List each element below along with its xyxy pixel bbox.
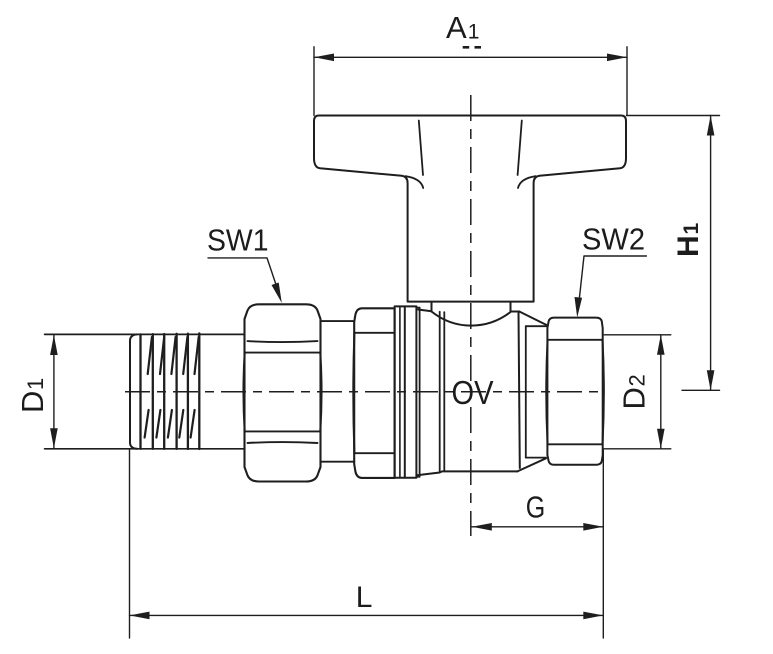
- dimension H1 line: [710, 116, 712, 391]
- svg-text:SW2: SW2: [582, 221, 645, 256]
- label H1 rotated bold: [672, 223, 705, 258]
- label D1 rotated: [15, 378, 50, 413]
- dimension L extension lines: [130, 450, 604, 638]
- dimension A1 line: [314, 56, 627, 58]
- dimension D1 line: [53, 335, 55, 448]
- dimension D1 arrows: [50, 335, 58, 355]
- label D2 rotated: [617, 374, 652, 409]
- valve body right edge: [519, 312, 520, 469]
- svg-text:1: 1: [680, 223, 703, 235]
- dimension D2 line: [660, 335, 662, 449]
- dimension G line: [472, 526, 604, 528]
- svg-text:1: 1: [468, 20, 480, 43]
- thread end edge: [130, 334, 137, 448]
- svg-text:D: D: [15, 391, 50, 413]
- hex nut SW2 side bulges: [546, 340, 604, 445]
- dimension G extension right: [602, 450, 604, 557]
- handle outline: [314, 116, 626, 302]
- pipe bottom line: [45, 448, 244, 450]
- dimension A1 arrows: [314, 54, 334, 62]
- thread flank lines upper: [148, 337, 199, 374]
- svg-text:2: 2: [625, 374, 650, 386]
- handle fillet right: [518, 176, 536, 188]
- hex nut SW1 side bulges: [243, 353, 321, 432]
- valve body saddle arc: [432, 312, 511, 326]
- thread flank lines lower: [145, 410, 195, 438]
- dimension H1 extension bottom: [682, 389, 720, 391]
- svg-text:A: A: [446, 10, 467, 45]
- valve body chamfer bottom: [517, 458, 546, 471]
- union nut facet lines: [354, 333, 394, 453]
- valve body left edge lines: [439, 312, 441, 472]
- svg-text:G: G: [526, 489, 546, 524]
- svg-text:OV: OV: [452, 374, 494, 411]
- handle inner edge left: [419, 121, 423, 176]
- hex nut SW1 facet lines: [245, 341, 321, 443]
- dimension L line: [130, 614, 604, 616]
- vertical centerline: [470, 95, 472, 536]
- leader SW1: [208, 258, 280, 295]
- valve body chamfer top: [519, 312, 547, 326]
- dimension L arrows: [130, 612, 150, 620]
- dimension D2 extension lines: [604, 335, 671, 449]
- pipe top line: [45, 333, 244, 335]
- valve body bottom: [417, 471, 517, 475]
- valve body top shoulder left: [418, 310, 432, 312]
- union nut left bulge: [353, 333, 354, 453]
- neck between SW1 and union nut: [321, 320, 355, 322]
- leader SW2: [578, 256, 646, 309]
- hex nut SW2 facet lines: [547, 340, 602, 445]
- handle inner edge right: [518, 121, 522, 176]
- dimension D2 arrows: [657, 335, 665, 355]
- valve body corner vertical right: [510, 302, 512, 312]
- dimension H1 arrows: [707, 116, 715, 136]
- union nut outline: [354, 308, 394, 478]
- valve body neck bottom line: [526, 457, 546, 459]
- svg-text:SW1: SW1: [207, 222, 269, 257]
- svg-text:H: H: [672, 235, 705, 257]
- valve body top edge right: [511, 311, 520, 313]
- dimension A1 extension lines: [314, 47, 627, 116]
- svg-text:D: D: [617, 387, 652, 409]
- dimension G arrows: [472, 523, 492, 531]
- svg-text:L: L: [356, 581, 373, 614]
- horizontal centerline: [125, 391, 602, 393]
- hex nut SW1 outline: [245, 304, 321, 481]
- valve body neck top line: [526, 325, 548, 327]
- valve body corner vertical left: [431, 302, 433, 312]
- svg-text:1: 1: [23, 378, 48, 390]
- handle fillet left: [406, 176, 424, 188]
- hex nut SW2 outline: [547, 318, 602, 465]
- valve body neck inner line: [525, 326, 527, 457]
- union nut ring band: [395, 306, 420, 477]
- thread crest verticals: [141, 333, 200, 449]
- dimension H1 extension top: [627, 115, 720, 117]
- clipped marks under A1: [463, 46, 470, 49]
